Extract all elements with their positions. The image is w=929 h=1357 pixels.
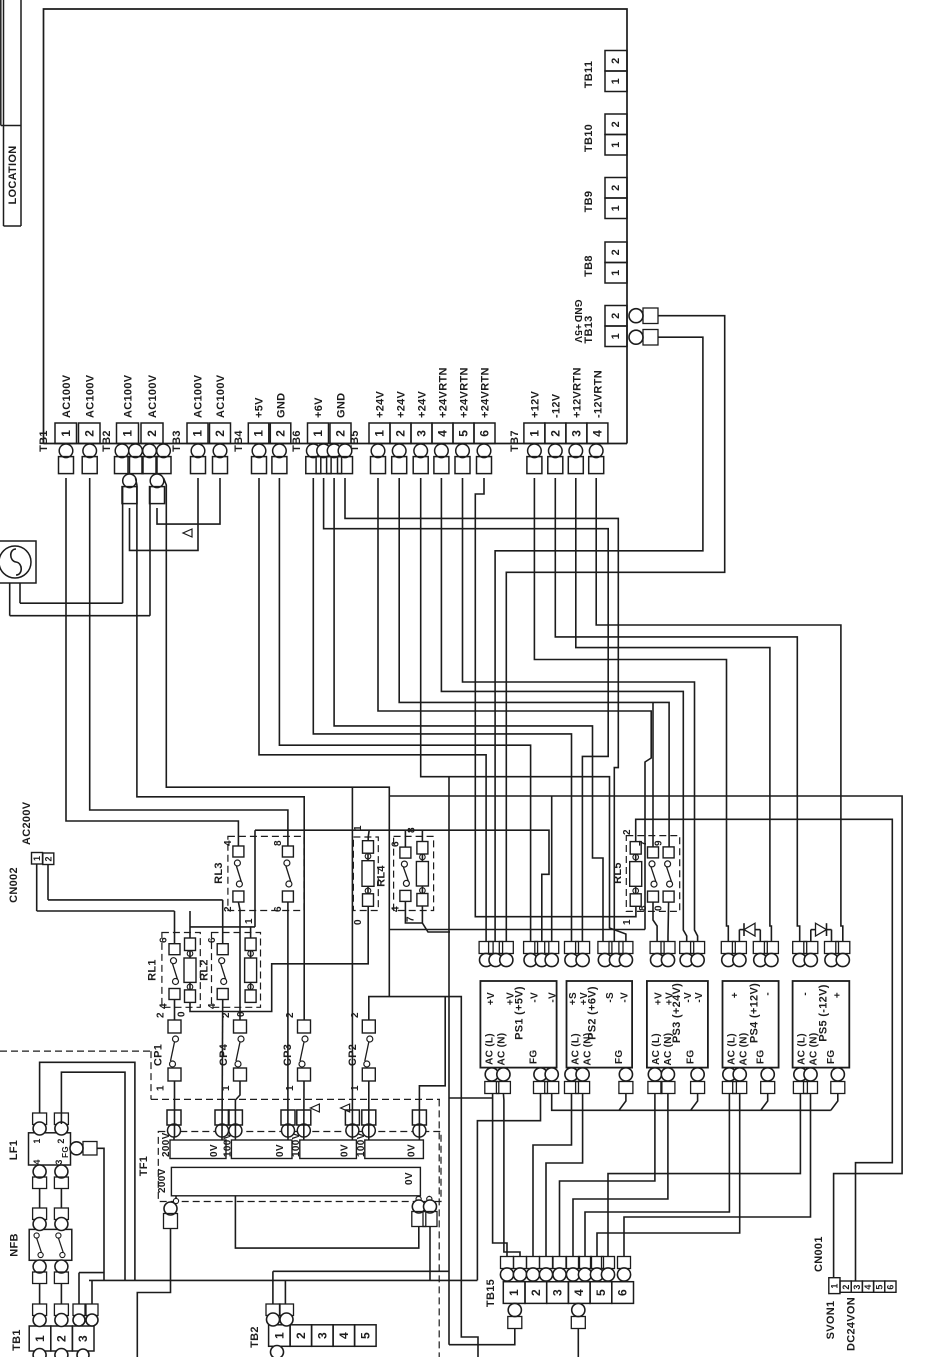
RL3 coil (terminals 1-0) [363,841,374,854]
wire TB6-2b to PS2 -V [345,478,618,942]
svg-text:NFB: NFB [8,1233,20,1257]
wire RL1 coil 0 to RL2 coil 0 bus [190,906,368,1011]
NFB bottom connectors [33,1260,46,1273]
wire TB15-1 bottom loop [449,1329,515,1345]
wire RL5 coil2 to DC24VON [636,819,893,1281]
wire rail riser [254,830,256,927]
svg-text:2: 2 [610,249,622,255]
wire PS2 ACN down [546,1094,583,1257]
svg-text:+5V: +5V [572,324,583,343]
RL2 coil [245,938,256,951]
svg-text:1: 1 [191,430,205,437]
svg-text:0V: 0V [275,1144,286,1157]
svg-text:3: 3 [315,1332,329,1339]
TF1 secondary left tap [175,1196,177,1201]
relay RL4 enclosure [394,836,434,910]
power supply PS1 [480,981,556,1068]
svg-text:0: 0 [654,905,665,911]
wire RL5 contact1 to PS3 +V [653,902,657,941]
svg-text:2: 2 [56,1138,66,1143]
svg-text:TB4: TB4 [233,430,245,452]
svg-text:AC (N): AC (N) [809,1033,820,1066]
wire SVON1 net [389,796,902,1278]
wire PS5 ACL down [608,1094,800,1257]
svg-text:3: 3 [76,1335,90,1342]
svg-text:TB2: TB2 [249,1326,261,1348]
svg-text:1: 1 [610,269,622,275]
svg-text:2: 2 [610,312,622,318]
svg-text:+: + [833,992,844,998]
svg-text:1: 1 [59,430,73,437]
svg-text:+24V: +24V [396,390,408,418]
svg-text:RL4: RL4 [376,865,388,887]
svg-text:5: 5 [457,430,471,437]
svg-text:6: 6 [616,1289,630,1296]
RL5 coil (terminals 2-1) [630,842,641,855]
circuit protector CP2 [362,1020,375,1033]
wire PS3 ACL down [560,1094,655,1257]
svg-text:2: 2 [610,57,622,63]
RL5 contact 2 (terminals 9-0) [663,847,674,858]
circuit breaker NFB [29,1229,72,1260]
svg-text:1: 1 [32,1138,42,1143]
svg-text:0: 0 [176,1011,187,1017]
svg-text:TB7: TB7 [509,430,521,452]
circuit protector CP4 [234,1020,247,1033]
wire TF1 secondary jumper [235,1196,418,1248]
TF1 primary winding 1 [170,1140,226,1159]
RL5 contact 1 (terminals 7-8) [648,847,659,858]
svg-text:+6V: +6V [313,397,325,418]
svg-text:5: 5 [594,1289,608,1296]
svg-text:TB8: TB8 [583,255,595,277]
svg-text:2: 2 [44,856,54,861]
svg-text:FG: FG [529,1050,540,1065]
wire RL3 contact B to TF1 tap [287,902,289,1137]
TB2 second-level crimp connectors [123,474,137,488]
svg-text:3: 3 [551,1289,565,1296]
svg-text:AC100V: AC100V [147,374,159,418]
svg-text:8: 8 [273,840,284,846]
TB1 wires [39,1284,41,1305]
svg-text:2: 2 [841,1284,851,1289]
svg-text:+V: +V [579,992,590,1005]
wire RL2 coil top feed [250,927,252,938]
TB2 crimp connectors [115,444,129,458]
wire PS4 ACN down [597,1094,740,1257]
svg-text:2: 2 [156,1012,167,1018]
svg-text:7: 7 [638,840,649,846]
TB1 crimp connectors [59,444,73,458]
TF1 secondary winding [171,1167,420,1195]
wire TB5-2 to RL5 contact2 [399,478,669,847]
RL1 contact (terminals 6-4) [169,944,180,955]
svg-text:AC (N): AC (N) [583,1033,594,1066]
svg-text:2: 2 [82,430,96,437]
CN002 wires to relay contacts [36,864,38,911]
RL3 contact B (terminals 8-6) [282,846,293,857]
wire LF1 FG [97,1148,104,1280]
TF1 primary tap crimp connectors [168,1124,181,1137]
TF1 secondary right taps [418,1196,420,1199]
svg-text:CN001: CN001 [813,1236,825,1272]
power supply PS4 [723,981,779,1068]
TB3 crimp connectors [191,444,205,458]
svg-text:PS4 (+12V): PS4 (+12V) [749,983,761,1043]
svg-text:FG: FG [756,1050,767,1065]
svg-text:2: 2 [350,1012,361,1018]
RL4 contact (terminals 6-4) [400,847,411,858]
svg-text:3: 3 [54,1159,64,1164]
NFB top connectors [33,1208,47,1220]
wire PS2 FG drop [619,1094,626,1111]
svg-text:6: 6 [391,841,402,847]
wire TB7-2 to PS5 - [555,478,799,942]
wire TF1 win4 0V feeder [419,997,445,1137]
svg-text:GND: GND [336,393,348,418]
wire relay coil bus 1 [190,926,255,928]
svg-text:1: 1 [610,78,622,84]
svg-text:AC100V: AC100V [215,374,227,418]
drawing frame edge [0,0,2,126]
wire RL3 contact A to CP4 [238,902,240,1020]
wire stubs TB15 [506,1280,508,1283]
svg-text:+: + [730,992,741,998]
wire return bus [389,929,645,931]
svg-text:FG: FG [614,1050,625,1065]
svg-text:+S: +S [568,992,579,1005]
svg-text:1: 1 [610,333,622,339]
svg-text:2: 2 [223,906,234,912]
wire LF1 pin2 up [61,1072,125,1280]
TB5 crimp connectors [371,444,385,458]
RL3 coil enclosure [353,837,378,911]
wire PS1 ACL down [493,1094,507,1257]
svg-text:+24VRTN: +24VRTN [459,367,471,418]
svg-text:AC100V: AC100V [84,374,96,418]
svg-text:2: 2 [334,430,348,437]
svg-text:1: 1 [272,1332,286,1339]
wire RL2 contact to TF1 0V tap [221,1000,224,1138]
wire FG bus bottom [89,1279,477,1281]
wire CP3 to TF1 100V tap [303,1081,305,1137]
svg-text:AC100V: AC100V [123,374,135,418]
svg-text:4: 4 [337,1332,351,1339]
wire RL1 contact to CP1 [174,1000,176,1021]
wire TB5-6 to RL5 coil 1 [475,478,636,917]
svg-text:CN002: CN002 [8,867,20,903]
svg-text:+V: +V [665,992,676,1005]
wire TB7-4 to PS5 + [596,478,843,942]
svg-text:SVON1: SVON1 [825,1301,837,1340]
svg-text:3: 3 [415,430,429,437]
TB1 below-cell connectors (cut at edge) [33,1349,46,1357]
svg-text:2: 2 [294,1332,308,1339]
RL1 coil [185,938,196,951]
svg-text:AC100V: AC100V [61,374,73,418]
wire TB2-2b feed [164,478,390,997]
svg-text:TB15: TB15 [485,1279,497,1307]
svg-text:4: 4 [436,430,450,437]
svg-text:6: 6 [886,1284,896,1289]
svg-text:DC24VON: DC24VON [845,1297,857,1351]
wire RL5 contact2 to PS3 +V [667,902,670,941]
cabinet bottom edge [44,443,628,445]
svg-text:2: 2 [285,1012,296,1018]
TB2 wires [272,1271,274,1304]
svg-text:1: 1 [33,1335,47,1342]
svg-text:TF1: TF1 [138,1156,150,1176]
svg-text:-V: -V [530,992,541,1003]
wire PS FG bus [552,1094,831,1111]
wire RL4 feeder drop [448,777,450,1345]
svg-text:-V: -V [548,992,559,1003]
triangle marker 1 [183,529,192,537]
wire CP4 to TF1 100V tap [235,1081,240,1137]
wire PS4 FG drop [761,1094,768,1111]
wire TB13 GND [506,316,724,942]
svg-text:+24VRTN: +24VRTN [438,367,450,418]
svg-text:AC (L): AC (L) [571,1033,582,1065]
svg-text:1: 1 [32,856,42,861]
svg-text:LOCATION: LOCATION [7,145,19,204]
wire RL4 coil top feed [421,830,423,841]
wire relay rail 830 [255,830,549,941]
svg-text:AC (L): AC (L) [651,1033,662,1065]
svg-text:2: 2 [55,1335,69,1342]
fan wires [9,583,11,616]
TB4 crimp connectors [252,444,266,458]
wire CP2 top feed [369,997,478,1357]
svg-text:CP4: CP4 [218,1043,230,1066]
svg-text:+24V: +24V [375,390,387,418]
triangle marker 2 [310,1104,319,1112]
svg-text:4: 4 [590,430,604,437]
TB15 top crimp connectors [501,1257,514,1269]
circuit protector CP3 [298,1020,311,1033]
wire TB1-2 to RL3 pin8 [90,478,288,846]
power supply PS5 [793,981,850,1068]
svg-text:RL3: RL3 [213,862,225,884]
svg-text:0V: 0V [339,1144,350,1157]
svg-text:AC (N): AC (N) [496,1033,507,1066]
svg-text:1: 1 [830,1283,840,1288]
svg-text:5: 5 [358,1332,372,1339]
svg-text:TB11: TB11 [583,61,595,89]
svg-text:AC (L): AC (L) [484,1033,495,1065]
wire CP2 to TF1 100V tap [368,1081,370,1137]
wire relay rail 830 to RL3 coil [368,830,369,841]
wire RL4 contact top feed [404,830,406,847]
wire TB2-1b to CP3 feed [136,478,305,1020]
wire PS1 ACL branch [449,1097,493,1099]
TB1 input connectors above cells [33,1304,47,1316]
TF1 primary winding 3 [300,1140,357,1159]
svg-text:8: 8 [638,905,649,911]
svg-text:0: 0 [353,919,364,925]
chassis dashed boundary [0,1050,151,1052]
wire PS1 -V riser [551,796,553,942]
wire RL1 coil top [189,911,191,938]
svg-text:FG: FG [61,1146,70,1158]
wire PS2 ACL down [533,1094,572,1257]
svg-text:GND: GND [572,299,583,322]
svg-text:9: 9 [654,840,665,846]
wire RL4 output [422,906,450,932]
LF1 bottom connectors [33,1165,46,1178]
svg-text:1: 1 [373,430,387,437]
svg-text:+V: +V [506,992,517,1005]
svg-text:3: 3 [852,1284,862,1289]
svg-text:2: 2 [529,1289,543,1296]
svg-text:AC200V: AC200V [21,801,33,845]
svg-text:0V: 0V [209,1144,220,1157]
svg-text:AC (N): AC (N) [663,1033,674,1066]
wire TB4-2 to PS1 -V [279,478,530,942]
svg-text:6: 6 [273,906,284,912]
svg-text:2: 2 [274,430,288,437]
power supply PS3 [647,981,708,1068]
svg-text:-V: -V [694,992,705,1003]
wire TB2-1 second to TB3-1 [130,478,199,550]
TB7 crimp connectors [528,444,542,458]
svg-text:2: 2 [145,430,159,437]
svg-text:4: 4 [863,1284,873,1289]
diode D2 across PS5 output [810,930,812,942]
wire RL5 contact1 top [652,702,654,847]
svg-text:200V: 200V [157,1168,168,1193]
svg-text:-12V: -12V [550,393,562,418]
svg-text:TB1: TB1 [38,430,50,452]
svg-text:TB3: TB3 [171,430,183,452]
svg-text:+12V: +12V [529,390,541,418]
svg-text:+V: +V [654,992,665,1005]
svg-text:AC (N): AC (N) [739,1033,750,1066]
wire PS1 ACN down [503,1094,520,1257]
svg-text:1: 1 [252,430,266,437]
wire PS4 ACL down [585,1094,729,1257]
wire RL4 contact to coil bottom tie [405,901,422,923]
svg-text:TB9: TB9 [583,191,595,213]
svg-text:1: 1 [622,919,633,925]
wire PS3 FG drop [691,1094,698,1111]
wire TB13 +5V [495,337,703,941]
svg-text:4: 4 [391,906,402,912]
svg-text:2: 2 [622,829,633,835]
svg-text:TB1: TB1 [11,1329,23,1351]
svg-text:4: 4 [572,1289,586,1296]
circuit protector CP1 [168,1020,181,1033]
svg-text:-12VRTN: -12VRTN [592,370,604,418]
wire TB4-1 to PS1 +V [259,478,486,942]
cabinet outline box [44,9,628,444]
wire TB5-3 feeder [421,478,449,777]
wire TB15-4 bottom exit [577,1329,579,1357]
svg-text:1: 1 [285,1085,296,1091]
svg-text:+V: +V [486,992,497,1005]
svg-text:2: 2 [394,430,408,437]
svg-text:2: 2 [213,430,227,437]
wire mystery branch to PS2 -V [449,777,626,942]
svg-text:6: 6 [159,937,170,943]
fan motor B1 [0,541,36,583]
svg-text:2: 2 [548,430,562,437]
LF1 top connectors [33,1113,47,1125]
svg-text:FG: FG [686,1050,697,1065]
svg-text:3: 3 [569,430,583,437]
svg-text:TB6: TB6 [291,430,303,452]
wire TB6-2a to PS2 -S [334,478,603,942]
svg-text:1: 1 [610,141,622,147]
relay RL1 enclosure [162,933,200,1008]
svg-text:4: 4 [159,1003,170,1009]
relay RL3 enclosure [228,836,304,910]
svg-text:2: 2 [610,121,622,127]
wire LF1 pin1 up [40,1062,135,1280]
wire PS5 ACN down [624,1094,811,1257]
svg-text:4: 4 [223,840,234,846]
svg-text:-V: -V [683,992,694,1003]
svg-text:TB13: TB13 [583,315,595,343]
wire FG to TF1 secondary B [429,1227,431,1281]
triangle marker 3 [341,1104,350,1112]
svg-text:5: 5 [874,1284,884,1289]
wire TB5-5 to PS3 -V [463,478,698,942]
svg-text:FG: FG [826,1050,837,1065]
RL2 contact (terminals 6-4) [217,944,228,955]
svg-text:1: 1 [311,430,325,437]
RL3 contact A (terminals 4-2) [233,846,244,857]
svg-text:-V: -V [620,992,631,1003]
TB6 crimp connectors [307,444,321,458]
wire TB5-4 to PS3 -V [441,478,686,942]
TF1 primary winding 4 [365,1140,424,1159]
wire PS5 FG drop [831,1094,838,1111]
svg-text:0V: 0V [404,1172,415,1185]
wire TB7-1 to PS4 + [534,478,728,942]
wire CP1 to TF1 200V tap [174,1081,176,1137]
svg-text:1: 1 [244,918,255,924]
svg-text:7: 7 [406,916,417,922]
relay RL5 enclosure [626,836,679,912]
TB13 crimp connectors [629,309,643,323]
svg-text:RL1: RL1 [147,959,159,981]
svg-text:LF1: LF1 [8,1140,20,1160]
svg-text:4: 4 [32,1159,42,1164]
wire TB5-1 feed [378,478,651,930]
line filter LF1 [29,1133,71,1165]
wire TB2b to feeder [273,1270,449,1272]
wire TF1 0V tap feeder [351,787,353,1137]
svg-text:+12VRTN: +12VRTN [571,367,583,418]
svg-text:1: 1 [121,430,135,437]
TB15 bottom connectors [508,1303,521,1316]
wire TB7-3 to PS4 - [576,478,772,942]
svg-text:TB2: TB2 [101,430,113,452]
RL4 coil (terminals 8-7) [417,842,428,855]
svg-text:+24VRTN: +24VRTN [480,367,492,418]
svg-text:1: 1 [350,1085,361,1091]
svg-text:CP1: CP1 [153,1044,165,1066]
svg-text:1: 1 [507,1289,521,1296]
svg-text:4: 4 [207,1003,218,1009]
svg-text:-: - [763,992,774,996]
svg-text:AC (L): AC (L) [797,1033,808,1065]
power supply PS2 [567,981,633,1068]
svg-text:AC100V: AC100V [193,374,205,418]
svg-text:AC (L): AC (L) [727,1033,738,1065]
wire TB6-1a to PS2 +S [313,478,571,942]
